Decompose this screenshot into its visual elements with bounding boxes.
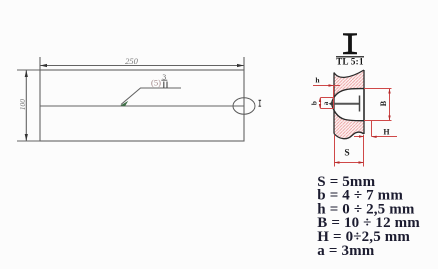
svg-text:H: H xyxy=(383,127,390,136)
svg-text:B: B xyxy=(379,100,388,106)
svg-text:b: b xyxy=(310,101,319,105)
svg-text:100: 100 xyxy=(18,99,27,111)
svg-text:a = 3mm: a = 3mm xyxy=(317,243,374,259)
svg-text:TL 5:1: TL 5:1 xyxy=(336,56,364,66)
svg-text:a: a xyxy=(322,101,330,105)
svg-text:S: S xyxy=(344,149,349,159)
svg-text:(5): (5) xyxy=(151,78,161,88)
svg-text:h: h xyxy=(315,75,320,84)
svg-text:250: 250 xyxy=(125,56,139,66)
